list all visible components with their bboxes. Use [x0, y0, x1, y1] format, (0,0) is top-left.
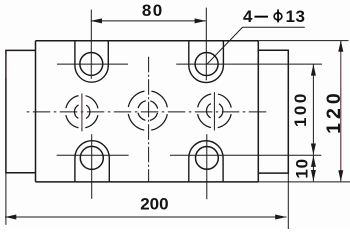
arrowhead 10 bottom — [311, 170, 316, 181]
hole slot top-right — [189, 41, 224, 83]
svg-text:80: 80 — [142, 1, 164, 20]
leader line for 4-phi13 — [207, 27, 305, 64]
dimension line 200 — [5, 216, 287, 218]
hole circle top-right — [195, 53, 218, 76]
top edge extension line — [258, 40, 348, 42]
scan tint 120 dim line — [340, 90, 342, 170]
plate bottom edge — [36, 181, 259, 183]
scan tint hole TL centerline — [90, 67, 92, 80]
label phi symbol — [274, 13, 282, 20]
bottom row line right segment — [170, 154, 321, 156]
left wing outline — [6, 50, 36, 172]
label dash — [255, 16, 269, 18]
bottom edge extension line — [258, 181, 350, 183]
svg-text:120: 120 — [323, 89, 345, 134]
hole slot top-left — [75, 41, 108, 82]
svg-text:10: 10 — [293, 158, 312, 179]
port circle right inner (dashed) — [207, 103, 223, 119]
scan tint left tab edge — [5, 54, 7, 78]
hole slot bottom-right — [189, 141, 223, 182]
port circle center inner (dashed) — [138, 101, 158, 121]
centerline vertical port right — [213, 92, 215, 130]
hole circle bottom-left — [80, 146, 103, 169]
svg-text:13: 13 — [286, 7, 306, 26]
port circle center outer (dashed) — [128, 91, 168, 131]
centerline vertical port left — [81, 93, 83, 131]
svg-text:4: 4 — [243, 7, 253, 26]
plate right edge — [257, 41, 259, 182]
arrowhead 200 right — [275, 215, 286, 220]
arrowhead 10 top — [311, 156, 316, 167]
dimension line 100 — [312, 64, 314, 155]
port circle left inner (dashed) — [75, 104, 90, 119]
arrowhead 100 top — [311, 64, 316, 75]
plate left edge — [35, 41, 37, 182]
hole circle bottom-right — [196, 147, 219, 170]
svg-text:100: 100 — [291, 91, 310, 127]
arrowhead 80 left — [91, 18, 102, 23]
dimension line 120 — [340, 40, 342, 181]
top row line left segment — [57, 63, 128, 65]
arrowhead 80 right — [195, 18, 206, 23]
centerline vertical hole top-right — [205, 8, 207, 81]
port circle left outer (dashed) — [66, 95, 99, 128]
top row line right segment — [176, 63, 322, 65]
arrowhead 120 top — [338, 40, 343, 51]
bottom row line left segment — [57, 154, 129, 156]
scan tint port left centerline — [81, 99, 83, 128]
arrowhead 200 left — [5, 215, 16, 220]
dimension line 80 — [91, 20, 206, 22]
right wing outline — [258, 50, 288, 173]
hole slot bottom-left — [75, 141, 109, 182]
arrowhead 100 bottom — [311, 144, 316, 155]
extension line left for 200 — [5, 173, 7, 225]
plate top edge — [36, 40, 259, 42]
svg-text:200: 200 — [140, 194, 168, 213]
horizontal centerline (dash-dot) — [27, 111, 268, 113]
centerline vertical hole bottom-right — [206, 134, 208, 199]
extension line right for 200 — [287, 173, 289, 229]
dimension line 10 — [312, 156, 314, 182]
centerline vertical hole bottom-left — [91, 134, 93, 199]
centerline vertical hole top-left — [90, 10, 92, 79]
vertical centerline center (dash-dot) — [148, 57, 150, 182]
hole circle top-left — [80, 52, 103, 75]
arrowhead 120 bottom — [338, 170, 343, 181]
port circle right outer (dashed) — [197, 94, 231, 128]
